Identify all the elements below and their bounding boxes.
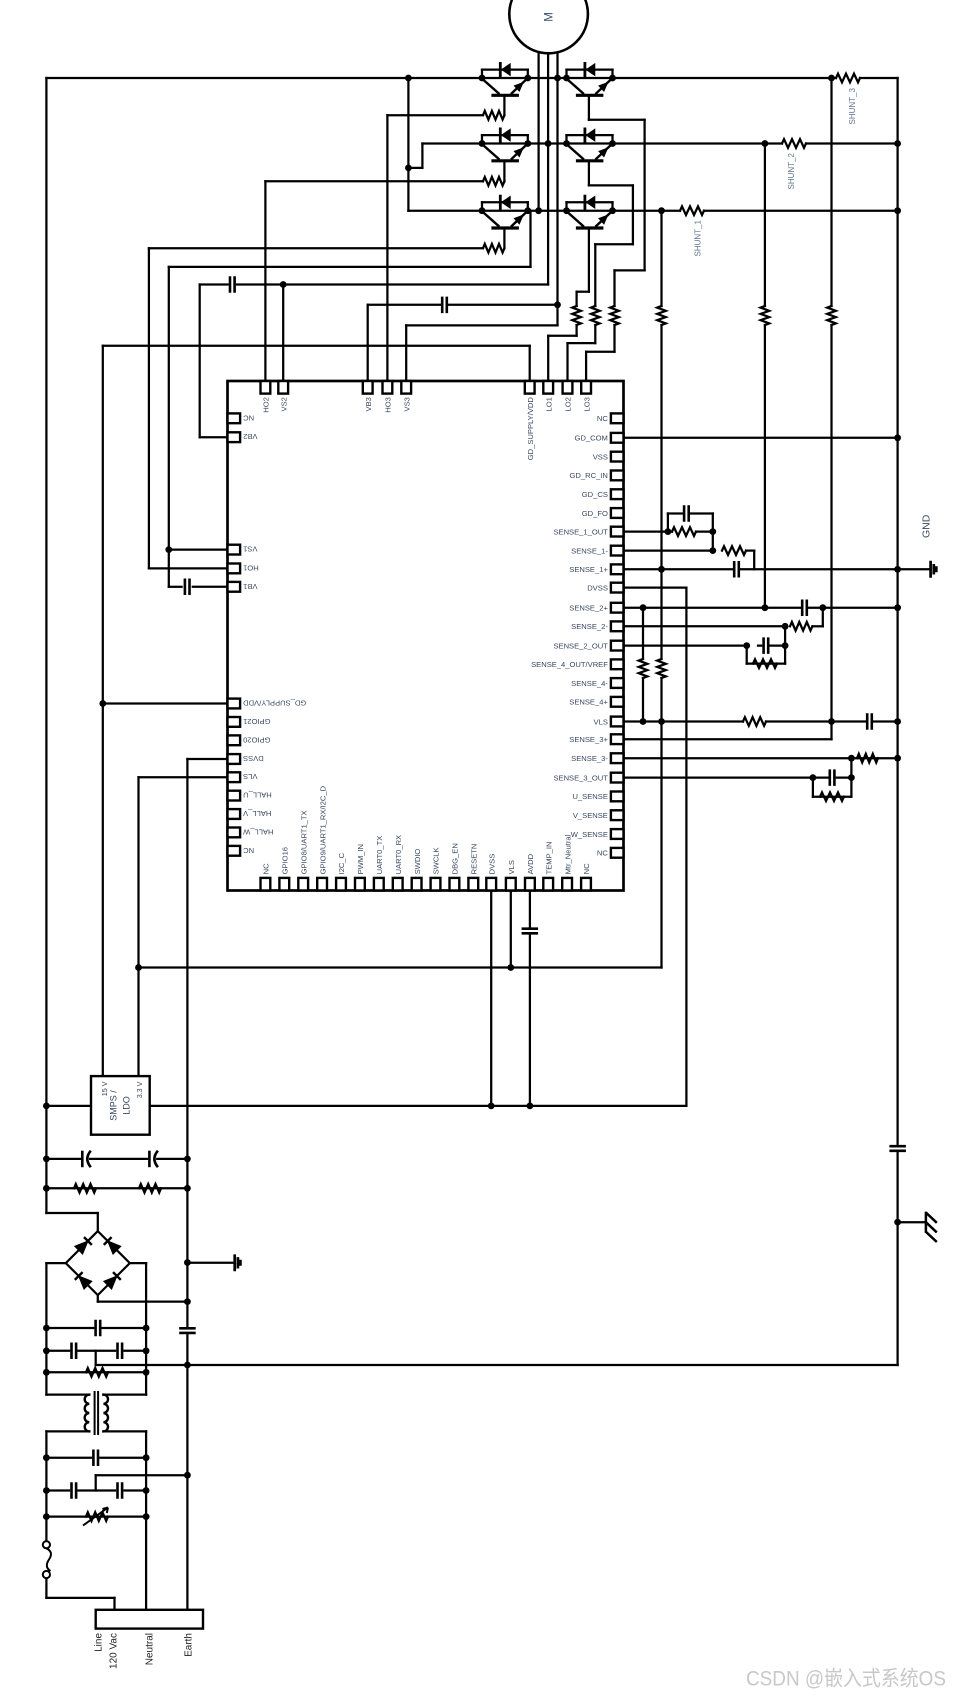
- svg-text:SENSE_4+: SENSE_4+: [569, 698, 608, 707]
- svg-text:UART0_TX: UART0_TX: [375, 836, 384, 875]
- svg-text:DBG_EN: DBG_EN: [451, 843, 460, 874]
- svg-text:VS3: VS3: [402, 397, 411, 411]
- svg-text:VLS: VLS: [594, 717, 608, 726]
- svg-text:SENSE_2_OUT: SENSE_2_OUT: [553, 641, 608, 650]
- svg-text:I2C_C: I2C_C: [337, 852, 346, 874]
- svg-text:GD_RC_IN: GD_RC_IN: [569, 471, 607, 480]
- svg-text:HO1: HO1: [243, 563, 259, 572]
- svg-text:SHUNT_3: SHUNT_3: [848, 87, 857, 124]
- svg-text:120 Vac: 120 Vac: [109, 1633, 120, 1669]
- svg-text:LO2: LO2: [564, 397, 573, 411]
- svg-text:AVDD: AVDD: [526, 853, 535, 874]
- svg-text:NC: NC: [243, 846, 254, 855]
- svg-text:Mtr_Neutral: Mtr_Neutral: [563, 834, 572, 874]
- svg-text:LO3: LO3: [582, 397, 591, 411]
- svg-text:NC: NC: [597, 414, 608, 423]
- svg-text:VS1: VS1: [243, 545, 257, 554]
- svg-text:DVSS: DVSS: [587, 583, 608, 592]
- svg-text:GD_SUPPLY/VDD: GD_SUPPLY/VDD: [243, 699, 307, 708]
- svg-text:VLS: VLS: [243, 772, 257, 781]
- svg-text:NC: NC: [582, 863, 591, 874]
- svg-text:GD_FO: GD_FO: [582, 509, 608, 518]
- svg-text:DVSS: DVSS: [487, 854, 496, 875]
- svg-text:VB1: VB1: [243, 582, 257, 591]
- svg-text:SHUNT_1: SHUNT_1: [694, 219, 703, 256]
- svg-text:V_SENSE: V_SENSE: [573, 811, 608, 820]
- svg-text:RESETN: RESETN: [470, 844, 479, 875]
- svg-text:GD_SUPPLY/VDD: GD_SUPPLY/VDD: [526, 397, 535, 461]
- svg-text:VLS: VLS: [507, 860, 516, 874]
- svg-text:HALL_U: HALL_U: [243, 791, 272, 800]
- svg-text:VB2: VB2: [243, 432, 257, 441]
- svg-text:SENSE_1+: SENSE_1+: [569, 565, 608, 574]
- svg-text:Neutral: Neutral: [145, 1633, 156, 1665]
- svg-text:VS2: VS2: [279, 397, 288, 411]
- svg-text:SENSE_3-: SENSE_3-: [571, 754, 608, 763]
- svg-text:LDO: LDO: [122, 1096, 132, 1115]
- svg-text:PWM_IN: PWM_IN: [356, 844, 365, 874]
- svg-text:VSS: VSS: [593, 452, 608, 461]
- svg-text:GPIO9/UART1_RX/I2C_D: GPIO9/UART1_RX/I2C_D: [318, 785, 327, 874]
- svg-text:VB3: VB3: [364, 397, 373, 411]
- svg-text:SWCLK: SWCLK: [432, 847, 441, 874]
- svg-text:GPIO8/UART1_TX: GPIO8/UART1_TX: [299, 810, 308, 874]
- svg-text:DVSS: DVSS: [243, 754, 264, 763]
- svg-text:SENSE_1-: SENSE_1-: [571, 546, 608, 555]
- svg-text:GD_COM: GD_COM: [575, 434, 608, 443]
- svg-text:U_SENSE: U_SENSE: [572, 792, 607, 801]
- svg-text:W_SENSE: W_SENSE: [571, 830, 608, 839]
- svg-text:NC: NC: [597, 849, 608, 858]
- svg-text:LO1: LO1: [544, 397, 553, 411]
- svg-text:GD_CS: GD_CS: [582, 490, 608, 499]
- svg-text:SWDIO: SWDIO: [413, 849, 422, 875]
- svg-text:CSDN @嵌入式系统OS: CSDN @嵌入式系统OS: [746, 1668, 946, 1691]
- svg-text:HO2: HO2: [262, 397, 271, 413]
- svg-text:GPIO21: GPIO21: [243, 717, 270, 726]
- svg-text:HALL_V: HALL_V: [242, 809, 271, 818]
- svg-text:SENSE_2-: SENSE_2-: [571, 622, 608, 631]
- svg-text:GND: GND: [921, 514, 933, 538]
- svg-text:GPIO16: GPIO16: [281, 847, 290, 874]
- svg-text:SENSE_2+: SENSE_2+: [569, 604, 608, 613]
- svg-text:TEMP_IN: TEMP_IN: [544, 841, 553, 874]
- svg-text:SENSE_4_OUT/VREF: SENSE_4_OUT/VREF: [531, 660, 608, 669]
- svg-text:UART0_RX: UART0_RX: [394, 835, 403, 875]
- svg-text:SENSE_1_OUT: SENSE_1_OUT: [553, 527, 608, 536]
- svg-text:HO3: HO3: [384, 397, 393, 413]
- svg-text:GPIO20: GPIO20: [243, 735, 270, 744]
- svg-text:SMPS /: SMPS /: [109, 1090, 119, 1121]
- svg-text:Line: Line: [94, 1633, 105, 1652]
- svg-text:SENSE_3_OUT: SENSE_3_OUT: [553, 773, 608, 782]
- svg-text:15 V: 15 V: [100, 1081, 109, 1096]
- svg-text:NC: NC: [243, 413, 254, 422]
- svg-text:SHUNT_2: SHUNT_2: [787, 152, 796, 189]
- svg-text:HALL_W: HALL_W: [242, 827, 273, 836]
- svg-text:NC: NC: [262, 863, 271, 874]
- svg-text:SENSE_4-: SENSE_4-: [571, 679, 608, 688]
- svg-text:SENSE_3+: SENSE_3+: [569, 735, 608, 744]
- svg-text:Earth: Earth: [184, 1633, 195, 1657]
- svg-text:3.3 V: 3.3 V: [135, 1081, 144, 1098]
- svg-text:M: M: [544, 12, 556, 22]
